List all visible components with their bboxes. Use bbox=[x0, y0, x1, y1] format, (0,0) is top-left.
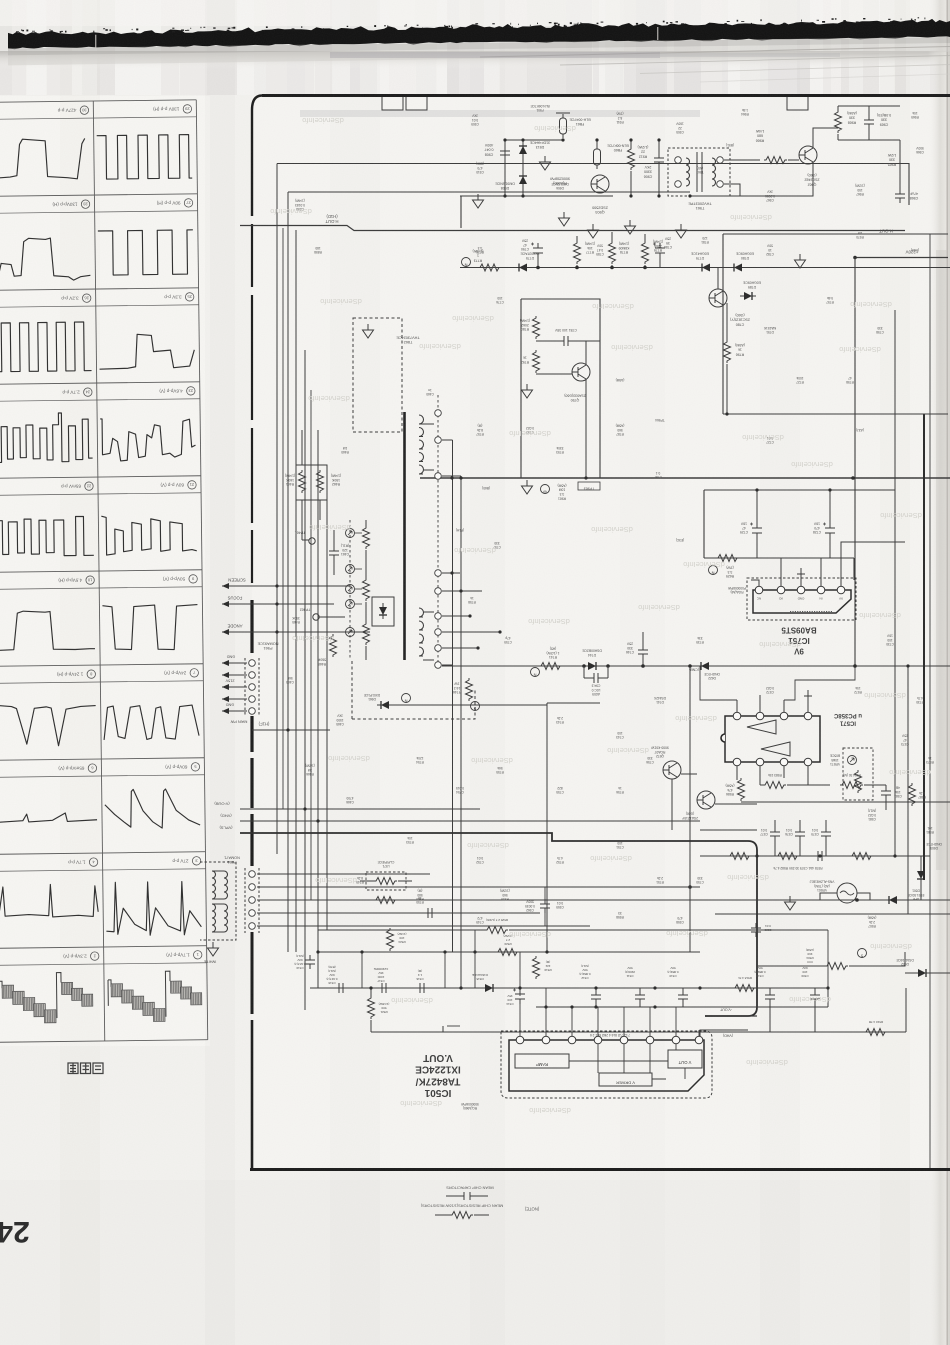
resistor R912 bbox=[628, 147, 635, 170]
resistor R519 bbox=[533, 956, 540, 979]
waveform cell r8c2 bbox=[105, 789, 200, 829]
feedback box bbox=[521, 299, 600, 478]
waveform cell r6c1 bbox=[0, 610, 95, 650]
resistor R510 bbox=[733, 985, 756, 992]
label C729 lbl bbox=[740, 521, 748, 534]
label misc C910 bbox=[476, 162, 484, 174]
bottom bus y1007 bbox=[536, 1006, 828, 1008]
resistor R790 bbox=[533, 316, 540, 339]
waveform staircase row 10 bbox=[0, 981, 2, 1007]
capacitor C577 bbox=[770, 827, 780, 841]
label P951 bbox=[224, 855, 240, 864]
transistor Q572 bbox=[697, 791, 715, 809]
waveform header row 6 bbox=[86, 576, 95, 585]
schematic right inner border bbox=[929, 234, 931, 1168]
label misc C782 bbox=[766, 244, 774, 256]
label misc R959 bbox=[500, 889, 510, 901]
resistor R529 bbox=[496, 949, 519, 956]
right page edge bbox=[928, 0, 950, 1345]
wire vertical x855 bbox=[854, 258, 856, 667]
IC501 V DRIVER box bbox=[599, 1073, 652, 1086]
label misc R750 bbox=[416, 896, 424, 904]
ground gt IC751 bbox=[797, 568, 805, 574]
label misc C465 bbox=[336, 714, 344, 726]
label C519 lbl bbox=[294, 954, 305, 970]
label GND2 bbox=[226, 703, 235, 707]
resistor R792 bbox=[533, 350, 540, 373]
IC751 body bbox=[753, 590, 851, 613]
label misc R757 bbox=[476, 424, 484, 436]
choke coils L951 L952 bbox=[200, 862, 236, 940]
label Q790 lbl bbox=[564, 394, 585, 403]
ground g9 bbox=[522, 384, 533, 398]
label misc (A5M) bbox=[616, 378, 625, 382]
label ICN lbl bbox=[689, 668, 699, 672]
diode D744 bbox=[584, 662, 600, 670]
capacitor C969 bbox=[864, 115, 874, 129]
ground g3 bbox=[559, 212, 570, 226]
label misc C909 bbox=[471, 114, 479, 126]
wire +220V bbox=[855, 257, 948, 259]
label misc C581 bbox=[868, 809, 876, 821]
capacitor C516 bbox=[415, 983, 429, 993]
diode D780 bbox=[730, 264, 746, 272]
resistor R960 bbox=[374, 897, 397, 904]
label VR571 lbl bbox=[830, 754, 840, 766]
preset VR at 632 bbox=[346, 628, 355, 637]
label T961 lbl bbox=[688, 201, 712, 210]
label misc C743 bbox=[616, 731, 624, 739]
circled W bbox=[541, 485, 550, 494]
schematic bottom border bbox=[250, 1168, 950, 1171]
label R525 lbl bbox=[486, 918, 508, 922]
ground g7 bbox=[795, 254, 806, 268]
resistor R504 bbox=[825, 963, 848, 970]
resistor R578 bbox=[776, 853, 799, 860]
label C791 lbl bbox=[554, 328, 576, 332]
waveform cell r5c2 bbox=[101, 515, 196, 555]
flyback pin 8 bbox=[435, 473, 442, 480]
label misc C730 bbox=[886, 634, 894, 646]
ground g10 bbox=[522, 480, 533, 494]
label misc C573 bbox=[901, 734, 909, 746]
label R516 lbl bbox=[869, 1020, 883, 1024]
wire pins to verticals bbox=[423, 424, 461, 660]
label misc C757 bbox=[493, 541, 501, 549]
waveform cell r2c2 bbox=[98, 230, 194, 275]
wire H1F1 bbox=[252, 729, 330, 731]
label misc R752 bbox=[556, 856, 564, 864]
label misc R754 bbox=[416, 756, 424, 764]
label C744 lbl bbox=[591, 684, 600, 697]
waveform header row 10 bbox=[90, 952, 99, 961]
capacitor C788 bbox=[653, 243, 665, 259]
capacitor C791 bbox=[559, 336, 573, 346]
preset VR at 589 bbox=[346, 585, 355, 594]
label R778 lbl bbox=[619, 241, 630, 254]
ground g5 bbox=[625, 220, 636, 234]
label C728 lbl bbox=[813, 521, 821, 534]
bar specks bbox=[444, 25, 445, 27]
label (V-OUB) bbox=[214, 802, 230, 807]
label L971 lbl bbox=[378, 860, 395, 868]
label D961 lbl bbox=[364, 693, 380, 701]
vertical wires from flyback bbox=[452, 440, 454, 952]
label R519 lbl bbox=[544, 960, 552, 972]
label misc TP964 bbox=[655, 418, 665, 422]
label VR501 lbl bbox=[809, 880, 834, 892]
label +220V bbox=[906, 250, 919, 255]
label R960 lbl bbox=[416, 889, 424, 901]
label misc C751 bbox=[616, 841, 624, 849]
wire bus y666 bbox=[442, 665, 950, 667]
label D776 lbl bbox=[520, 252, 540, 260]
label D515 lbl bbox=[472, 973, 488, 981]
waveform cell r3c1 bbox=[0, 322, 92, 372]
wire P951 pin leads bbox=[257, 873, 430, 875]
resistor R968 bbox=[835, 110, 842, 133]
label C512 lbl bbox=[579, 964, 590, 980]
label misc C776 bbox=[496, 296, 504, 304]
label R587 lbl bbox=[918, 791, 926, 799]
label misc C755 bbox=[556, 786, 564, 794]
label R796 lbl bbox=[735, 343, 745, 356]
label misc C463 bbox=[286, 676, 294, 684]
label misc C792 bbox=[526, 426, 534, 434]
label misc R798 bbox=[846, 376, 854, 384]
fuse FB61 bbox=[560, 114, 567, 138]
IC571 pins bottom bbox=[733, 758, 741, 766]
diode D502 bbox=[914, 969, 930, 977]
ground g2 bbox=[473, 194, 484, 208]
label misc C789 bbox=[596, 244, 604, 256]
label FB60 lbl bbox=[607, 143, 629, 152]
label misc R730 bbox=[916, 696, 924, 704]
label Q572 lbl bbox=[681, 812, 698, 820]
label misc R743 bbox=[556, 716, 564, 724]
resistor R796 bbox=[724, 340, 731, 363]
bottom bus y952 bbox=[318, 951, 700, 953]
bottom cluster box bbox=[318, 929, 475, 931]
capacitor C511 bbox=[635, 990, 645, 1004]
label C510 lbl bbox=[667, 966, 678, 978]
diode D781 bbox=[740, 292, 756, 300]
label R773 lbl bbox=[473, 249, 484, 262]
label misc R964 bbox=[741, 108, 749, 116]
waveform cell r5c1 bbox=[0, 516, 94, 556]
IC571 opamp triangles bbox=[747, 720, 776, 734]
test point TP462 bbox=[313, 614, 319, 620]
diode D506 bbox=[917, 867, 925, 883]
label H.OUT right bbox=[879, 229, 893, 234]
right side verticals bbox=[894, 310, 896, 856]
waveform header row 3 bbox=[82, 294, 91, 303]
label R968 lbl bbox=[847, 111, 857, 124]
label misc C756 bbox=[646, 756, 654, 764]
label Q573 lbl bbox=[650, 746, 668, 759]
label 215V bbox=[225, 679, 234, 683]
resistor R741 bbox=[539, 663, 562, 670]
resistor R586 bbox=[738, 778, 745, 801]
label C788 lbl bbox=[664, 236, 672, 249]
flyback core bbox=[403, 412, 406, 660]
label misc C750 bbox=[696, 876, 704, 884]
capacitor C729 bbox=[750, 523, 762, 539]
label C907 lbl bbox=[644, 165, 653, 178]
label D781 lbl bbox=[742, 281, 760, 289]
label R963 lbl bbox=[558, 483, 567, 500]
IC501 internal wires bbox=[569, 1044, 685, 1079]
capacitor C744 bbox=[584, 666, 608, 678]
wire bus y856 bbox=[700, 855, 930, 857]
bottom bus y988 bbox=[310, 987, 828, 989]
wire vertical x690 bbox=[689, 666, 691, 952]
test point TP461 bbox=[309, 538, 315, 544]
resistor R577 bbox=[728, 853, 751, 860]
label D507 lbl bbox=[908, 889, 925, 901]
label C968 lbl bbox=[909, 191, 918, 200]
ground g8 bbox=[363, 324, 374, 338]
label C516 lbl bbox=[416, 969, 424, 981]
label RCA960 lbl bbox=[550, 176, 570, 185]
label D744 lbl bbox=[581, 649, 601, 657]
circled N4 bbox=[402, 694, 411, 703]
label misc R751 bbox=[656, 876, 664, 884]
label misc R967 bbox=[855, 184, 865, 196]
preset column dashed bbox=[349, 520, 351, 660]
label misc R781 bbox=[701, 236, 709, 244]
label misc D906 bbox=[551, 182, 568, 190]
waveform cell r1c2 bbox=[97, 135, 193, 180]
capacitor C579b bbox=[813, 851, 827, 861]
label misc C727 bbox=[766, 436, 774, 444]
diode D779 bbox=[698, 264, 714, 272]
label misc (B91) bbox=[726, 143, 734, 147]
label Q780 lbl bbox=[730, 313, 750, 326]
label IC501 pw bbox=[461, 1102, 479, 1110]
wire exits V.OUT bbox=[712, 1015, 757, 1017]
IC501 pins bbox=[516, 1036, 524, 1044]
label misc (E3C) bbox=[676, 538, 684, 542]
label TP461 lbl bbox=[295, 531, 306, 535]
label misc R466 bbox=[305, 764, 315, 776]
capacitor C519 bbox=[305, 955, 315, 969]
transistor Q962 2SC2482 bbox=[799, 146, 817, 164]
preset VR at 569 bbox=[346, 565, 355, 574]
wires V-OUT / VHD / VPLS bbox=[240, 808, 480, 810]
label R792 lbl bbox=[521, 356, 529, 364]
label misc (H60) bbox=[911, 248, 919, 252]
label H.OUT bbox=[325, 214, 338, 224]
label misc C759 bbox=[504, 636, 512, 644]
label R965 lbl bbox=[887, 153, 896, 166]
label C579 lbl bbox=[811, 828, 819, 836]
label misc C466 bbox=[346, 796, 354, 804]
resistor box R461/R462 bbox=[296, 465, 327, 500]
wire bus y478 bbox=[420, 477, 950, 479]
waveform cell r3c2 bbox=[99, 334, 194, 370]
label C577 lbl bbox=[760, 828, 768, 836]
label misc R758 bbox=[468, 596, 476, 604]
waveform header row 8 bbox=[88, 764, 97, 773]
label IC751 name bbox=[781, 626, 817, 656]
diode D913 bbox=[519, 142, 527, 158]
resistor chain right of presets bbox=[363, 526, 370, 549]
capacitor C517 bbox=[377, 983, 391, 993]
label misc R775 bbox=[476, 246, 484, 254]
label C520 lbl bbox=[764, 924, 772, 932]
capacitor C968 bbox=[895, 189, 905, 203]
label C969 lbl bbox=[877, 113, 891, 126]
IC501 RAMP box bbox=[515, 1054, 569, 1068]
label misc R793 bbox=[556, 446, 564, 454]
wire T961 to Q bbox=[724, 160, 760, 196]
capacitor C728 bbox=[823, 523, 835, 539]
flyback pin 2 bbox=[435, 662, 442, 669]
label misc R460 bbox=[341, 446, 349, 454]
label WHITE bbox=[203, 960, 216, 964]
label misc R727 bbox=[796, 376, 804, 384]
resistor R516 bbox=[864, 1029, 887, 1036]
capacitor C579 bbox=[821, 827, 831, 841]
diode D914 bbox=[519, 172, 527, 188]
label misc R572 bbox=[854, 686, 862, 694]
label C513 lbl bbox=[754, 966, 765, 978]
label misc D791 bbox=[763, 326, 776, 334]
capacitor C520 bbox=[751, 923, 761, 937]
label D502 lbl bbox=[896, 958, 913, 966]
vertical wires bundle left bbox=[276, 164, 278, 855]
label row856 lbl bbox=[773, 866, 822, 870]
TP963 labels bbox=[578, 482, 600, 490]
diode D622 bbox=[697, 662, 713, 670]
label R468 lbl bbox=[317, 658, 326, 666]
label C790 lbl bbox=[521, 238, 529, 251]
label misc R756 bbox=[616, 786, 624, 794]
transformer T961 bbox=[668, 148, 730, 196]
label V.OUT exit bbox=[719, 1008, 732, 1012]
label FB61 lbl bbox=[569, 117, 591, 126]
label R529 lbl bbox=[503, 934, 512, 946]
IC501 gt bbox=[439, 1026, 447, 1032]
waveform cell r9c1 bbox=[0, 884, 98, 918]
label IC501 name bbox=[415, 1052, 461, 1098]
resistor R966 bbox=[764, 157, 787, 164]
waveform header row 2 bbox=[81, 200, 90, 209]
label P961 pins bbox=[227, 655, 236, 659]
capacitor C746 bbox=[638, 645, 648, 659]
diode D961 bbox=[377, 701, 393, 709]
label misc R970 bbox=[856, 231, 864, 239]
label misc R573 bbox=[926, 756, 934, 764]
label misc R787 bbox=[616, 424, 625, 436]
dashed box T862 bbox=[353, 318, 402, 432]
resistor R777 bbox=[574, 241, 581, 264]
label misc R797 bbox=[826, 296, 834, 304]
IC751 dashed outline bbox=[747, 578, 856, 620]
transistor Q790 bbox=[572, 363, 590, 381]
torn black header bar bbox=[8, 19, 950, 49]
label misc R581 bbox=[926, 826, 934, 834]
label R521 lbl bbox=[379, 1002, 390, 1014]
dashed outer flyback enclosure bbox=[352, 690, 475, 719]
label R741 lbl bbox=[547, 646, 560, 659]
label D622 lbl bbox=[704, 672, 720, 680]
label C509 lbl bbox=[801, 966, 809, 978]
label D913 lbl bbox=[529, 140, 550, 149]
label misc D741 bbox=[653, 696, 666, 704]
diode D515 bbox=[481, 984, 497, 992]
label (VPLS) bbox=[219, 826, 233, 831]
regulator loop bbox=[704, 490, 895, 580]
label misc C460 bbox=[426, 388, 434, 396]
resistor R582 bbox=[850, 853, 873, 860]
label misc R969 bbox=[911, 111, 919, 119]
label misc C572 bbox=[766, 686, 774, 694]
label C583 lbl bbox=[894, 786, 902, 798]
label misc C754 bbox=[456, 786, 464, 794]
transistor Q780 bbox=[709, 289, 727, 307]
label C511 lbl bbox=[625, 966, 635, 978]
label FOCUS bbox=[227, 596, 242, 601]
ground gt IC571 bbox=[804, 690, 812, 696]
waveform header row 4 bbox=[84, 388, 93, 397]
capacitor C461 bbox=[329, 546, 339, 560]
label misc R755 bbox=[496, 766, 504, 774]
label misc C958 bbox=[676, 916, 684, 924]
label C517 lbl bbox=[374, 967, 389, 983]
connector P961 CRT PB bbox=[245, 658, 259, 716]
label misc C898 bbox=[295, 199, 305, 211]
label misc F901 bbox=[530, 104, 549, 112]
wire inner top frame bbox=[277, 164, 909, 206]
label misc R958 bbox=[616, 911, 624, 919]
resistor R746 bbox=[466, 678, 473, 701]
capacitor C908 bbox=[460, 140, 613, 228]
connector P951 bbox=[245, 868, 259, 933]
label R583 lbl bbox=[768, 773, 782, 777]
flyback pin column dashed bbox=[437, 395, 439, 668]
label SCREEN bbox=[228, 578, 245, 583]
label (VHD) bbox=[220, 814, 232, 819]
waveform table bbox=[0, 100, 208, 1042]
label D780 lbl bbox=[735, 252, 753, 260]
IC751 pins bbox=[755, 586, 763, 594]
label R912 lbl bbox=[638, 145, 649, 158]
preset VR at 533 bbox=[346, 529, 355, 538]
fuse FB60 bbox=[594, 145, 601, 169]
waveform cell r4c2 bbox=[100, 418, 196, 461]
IC501 dashed outline bbox=[501, 1031, 712, 1098]
schematic left border bbox=[251, 224, 253, 287]
waveform cell r8c1 bbox=[0, 813, 97, 823]
waveform header row 9 bbox=[89, 858, 98, 867]
label misc T961 bbox=[696, 166, 703, 174]
label R629 lbl bbox=[726, 565, 734, 578]
top edge connector tabs bbox=[382, 97, 427, 110]
label R966 lbl bbox=[755, 129, 764, 142]
label misc R911 bbox=[616, 112, 624, 124]
label ANODE bbox=[227, 624, 242, 629]
flyback winding upper bbox=[419, 415, 424, 474]
wire bus y192 bbox=[288, 191, 690, 193]
label C576 lbl bbox=[785, 828, 793, 836]
label R510 lbl bbox=[738, 976, 752, 980]
label misc R465 bbox=[291, 616, 299, 624]
ground g4 bbox=[588, 224, 599, 238]
table caption 波形図 bbox=[68, 1063, 103, 1074]
wire left exits SCREEN/FOCUS/ANODE bbox=[222, 586, 370, 632]
